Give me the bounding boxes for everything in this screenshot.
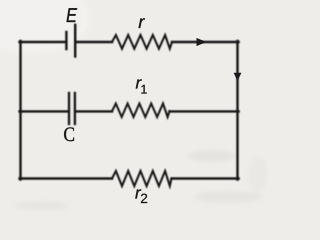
- resistor r1 zigzag: [112, 104, 170, 118]
- wire middle right segment (resistor r1 to right wire): [170, 110, 239, 112]
- current arrow right (top wire): [197, 38, 207, 46]
- battery E plate short (left): [65, 32, 67, 49]
- wire right vertical: [236, 41, 238, 180]
- wire bottom right segment (resistor r2 to corner): [172, 177, 239, 179]
- battery E plate long (right): [74, 25, 76, 57]
- label C: [64, 127, 74, 141]
- current arrow down (right wire): [234, 73, 242, 81]
- label E: [67, 8, 78, 22]
- label r: [139, 18, 145, 28]
- capacitor C plate left: [68, 93, 70, 124]
- wire middle segment (capacitor to resistor r1): [76, 110, 112, 112]
- wire left vertical: [19, 41, 21, 180]
- wire top middle segment (battery to resistor r): [76, 41, 112, 43]
- label r1: [136, 79, 142, 88]
- resistor r2 zigzag: [112, 171, 172, 186]
- wire top left segment (to battery): [20, 41, 66, 43]
- wire top right segment (resistor r to corner): [172, 41, 239, 43]
- label r2: [135, 189, 141, 198]
- wire middle left segment (to capacitor): [20, 110, 68, 112]
- resistor r zigzag: [112, 35, 172, 49]
- capacitor C plate right: [74, 93, 76, 124]
- wire bottom left segment (to resistor r2): [20, 177, 113, 179]
